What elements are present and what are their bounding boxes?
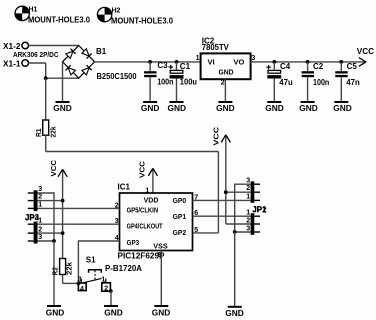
connector X1 terminal X1-2 [3,42,29,51]
svg-text:H1: H1 [29,6,38,13]
wire S1 pin2 down to ground [110,291,112,306]
pin header JP4 (with JP3 overlapped label) [25,186,43,244]
node VCC x JP4 bottom pin2 [61,231,65,235]
svg-text:C4: C4 [280,62,291,71]
wire IC1 GP0 pin7 to JP2 top pin1 [193,199,251,201]
svg-text:C3: C3 [157,61,168,70]
capacitor C3 [144,61,174,101]
wire JP4 bottom pin1 to IC1 GP4/CLKOUT [38,223,120,225]
svg-text:B250C1500: B250C1500 [97,72,138,81]
svg-text:GND: GND [225,309,244,318]
wire R1 net horizontal [46,151,219,153]
node VCC x JP2 top pin2 [224,190,228,194]
node GND column x JP4 bottom pin3 [52,239,56,243]
switch S1 P-B1720A [78,256,143,294]
supply symbol VCC at IC1 VDD [140,161,158,193]
JP4 pin stubs left [28,192,34,194]
ground below bridge [53,102,72,113]
svg-text:3: 3 [78,277,82,284]
svg-text:22k: 22k [66,262,73,275]
svg-text:GP3: GP3 [127,238,140,247]
diode B1 bottom-left [66,65,76,75]
ground below C3 [141,102,160,113]
resistor R1 22k [36,78,58,151]
wire IC1 GP3 to S1 column [78,241,119,283]
node GND column x JP2 bottom pin3 [233,230,237,234]
capacitor C2 [302,62,330,101]
svg-text:C5: C5 [347,62,358,71]
node R2/GP3/S1 junction [77,282,81,286]
supply symbol VCC left [51,160,67,259]
connector X1 terminal X1-1 [3,59,29,68]
diode B1 bottom-right [82,65,92,75]
wire R1 net vertical down to GP2 row [217,152,219,233]
node C4 tap [272,60,276,64]
JP2 pin stubs right [254,183,260,185]
svg-text:GND: GND [53,104,72,113]
svg-text:3: 3 [251,55,255,62]
svg-text:GND: GND [168,104,187,113]
svg-text:47u: 47u [279,78,293,87]
svg-text:GND: GND [299,104,318,113]
wire JP4 bottom pin3 to GND column [38,240,55,242]
svg-text:100n: 100n [313,78,329,87]
svg-text:GP4/CLKOUT: GP4/CLKOUT [127,221,163,230]
svg-text:IC1: IC1 [118,182,131,191]
svg-text:H2: H2 [112,8,121,15]
svg-text:7805TV: 7805TV [202,43,230,52]
svg-text:B1: B1 [96,47,107,56]
diode B1 top-right [82,49,92,59]
svg-text:22k: 22k [50,126,57,137]
capacitor C5 [335,62,360,101]
wire JP2 bottom pin3 [235,231,251,233]
wire JP2 top pin3 to GND column [235,184,251,232]
svg-text:GND: GND [141,104,160,113]
wire bridge left corner down to ground [62,62,64,101]
svg-text:P-B1720A: P-B1720A [105,264,142,273]
node C5 tap [339,60,343,64]
svg-text:3: 3 [38,234,42,241]
svg-text:GND: GND [152,309,171,318]
svg-text:VDD: VDD [144,195,159,204]
pin header JP2 (with JP1 overlapped label) [246,177,267,234]
resistor R2 22k [52,259,73,284]
svg-text:GP1: GP1 [173,212,187,221]
wire VCC corner to JP2 bottom pin2 [226,223,251,225]
svg-text:GND: GND [219,68,235,77]
ground below JP2 [225,307,244,318]
svg-text:VCC: VCC [140,161,147,178]
svg-text:4: 4 [80,286,84,293]
node junction X1-1/R1/bridge [44,76,48,80]
svg-text:C2: C2 [313,62,324,71]
svg-text:PIC12F629P: PIC12F629P [118,251,166,260]
supply symbol VCC right [213,127,230,224]
wire R2 bottom to S1 [63,282,79,284]
svg-text:X1-1: X1-1 [3,59,21,68]
ground below IC1 VSS [152,306,171,318]
wire IC2 VO to VCC arrow [251,61,365,63]
ground below C4 [265,102,284,113]
wire JP4 bottom pin2 to VCC column [38,232,63,234]
ground below IC2 [216,102,235,113]
svg-text:2: 2 [221,79,225,86]
ground below C5 [333,102,352,113]
wire main rail bridge to IC2 VI [95,61,201,63]
svg-text:GP5/CLKIN: GP5/CLKIN [127,206,159,215]
node C3 tap [148,60,152,64]
bridge rectifier B1 [63,46,138,81]
svg-text:47n: 47n [346,78,360,87]
svg-text:1: 1 [145,187,149,194]
wire IC1 VSS down to ground [160,251,162,307]
svg-text:3: 3 [246,177,250,184]
wire X1-2 to bridge top [29,45,79,47]
svg-text:2: 2 [246,217,250,224]
S1 actuator bracket [89,270,102,273]
S1 contact box pins 3/4 [78,283,86,291]
svg-text:GND: GND [104,309,123,318]
S1 actuator dashed link [94,271,96,282]
wire JP4 top pin2 to VCC column [38,200,63,202]
svg-text:C1: C1 [180,62,191,71]
svg-text:R1: R1 [36,128,43,137]
capacitor C4 (polarized) [266,62,293,101]
svg-text:100u: 100u [180,78,197,87]
wire R1 net to IC1 GP2 pin 5 [193,232,219,234]
svg-text:1: 1 [246,194,250,201]
ground below JP4 [46,306,65,318]
wire JP4 top pin1 to IC1 GP5/CLKIN [38,207,120,209]
svg-text:VCC: VCC [357,47,375,56]
svg-text:2: 2 [38,226,42,233]
svg-text:1: 1 [246,209,250,216]
svg-text:X1-2: X1-2 [3,42,21,51]
svg-text:VSS: VSS [153,241,168,250]
capacitor C1 (polarized) [169,62,198,101]
svg-text:1: 1 [101,276,105,283]
svg-text:JP2: JP2 [252,205,267,214]
svg-text:MOUNT-HOLE3.0: MOUNT-HOLE3.0 [28,16,91,25]
svg-text:2: 2 [104,286,108,293]
S1 pin 3 stub [80,279,82,283]
microcontroller IC1 PIC12F629 [115,182,199,260]
svg-text:3: 3 [246,225,250,232]
svg-text:GND: GND [333,104,352,113]
wire X1-1 to corner [29,62,46,64]
mount hole H2 [97,7,173,25]
wire JP4 top pin3 to GND column [38,193,55,241]
svg-text:1: 1 [38,218,42,225]
svg-text:2: 2 [246,185,250,192]
supply symbol VCC top right [357,47,375,66]
svg-text:5: 5 [194,227,198,234]
S1 lever [83,278,101,282]
svg-text:S1: S1 [86,256,96,265]
svg-text:2: 2 [38,194,42,201]
node VCC x JP4 top pin2 [61,199,65,203]
svg-text:VI: VI [208,57,215,66]
node C1 tap [175,60,179,64]
ground below C1 [168,102,187,113]
svg-text:ARK306 2P/DC: ARK306 2P/DC [13,52,59,59]
wire junction to bridge bottom corner [46,77,79,79]
svg-text:VO: VO [234,57,245,66]
node S1 pin2 junction [109,289,113,293]
ground below S1 [104,306,123,318]
wire IC1 GP1 pin6 to JP2 bottom pin1 [193,215,251,217]
svg-text:VCC: VCC [51,160,58,177]
svg-text:100n: 100n [157,78,173,87]
svg-text:GP0: GP0 [173,196,187,205]
voltage regulator IC2 7805TV [196,36,256,86]
diode B1 top-left [66,49,76,59]
wire IC2 GND pin down [224,79,226,101]
wire GND column down to ground right [234,232,236,307]
ground below C2 [299,102,318,113]
svg-text:R2: R2 [52,267,59,276]
svg-text:1: 1 [38,202,42,209]
svg-text:1: 1 [196,55,200,62]
svg-text:VCC: VCC [213,127,220,146]
wire VCC to JP2 top pin2 [226,191,251,193]
svg-text:GND: GND [216,104,235,113]
S1 pin 1 stub [105,279,107,283]
mount hole H1 [15,6,91,24]
svg-text:GND: GND [265,104,284,113]
svg-text:3: 3 [38,186,42,193]
S1 contact box pins 1/2 [102,283,111,291]
wire corner down to junction [45,63,47,78]
svg-text:MOUNT-HOLE3.0: MOUNT-HOLE3.0 [111,17,174,26]
svg-text:GND: GND [46,309,65,318]
wire GND column down to ground [53,241,55,306]
node C2 tap [306,60,310,64]
svg-text:GP2: GP2 [173,228,187,237]
